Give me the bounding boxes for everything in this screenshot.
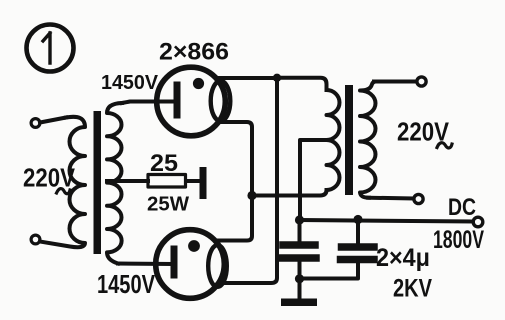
wire V1 filament top to junction A: [220, 76, 277, 80]
chassis bar bottom: [281, 299, 317, 307]
junction dot B: [247, 191, 256, 200]
T2 terminal top: [417, 77, 426, 86]
T2 primary winding (mains side): [360, 82, 376, 198]
V1 plate bar: [174, 85, 181, 115]
wire T2 top to terminal: [374, 80, 416, 84]
wire to chassis bottom: [298, 279, 302, 299]
svg-text:220V: 220V: [23, 163, 76, 193]
rectifier tube V1 (top 866): [157, 67, 231, 136]
chassis bar at resistor: [200, 167, 207, 199]
transformer T1 core: [94, 111, 102, 254]
svg-text:2×866: 2×866: [159, 39, 229, 66]
wire V1 filament bottom to vertical: [218, 122, 252, 241]
svg-text:2KV: 2KV: [393, 275, 432, 303]
V2 plate bar: [171, 249, 178, 275]
svg-text:1800V: 1800V: [433, 226, 484, 254]
T1 input terminal bottom: [31, 235, 40, 244]
wire secondary top to V1 plate: [122, 102, 175, 104]
wire terminal to primary top: [40, 118, 66, 123]
junction dot A: [273, 74, 281, 82]
V2 dot: [188, 240, 200, 252]
DC output terminal: [473, 217, 483, 227]
T2 secondary winding (tube side): [327, 90, 340, 190]
junction dot C: [295, 215, 304, 224]
wire secondary bottom to V2 plate: [118, 262, 172, 267]
label 220V~ left: [23, 163, 76, 193]
svg-text:1450V: 1450V: [97, 269, 156, 299]
svg-text:1450V: 1450V: [101, 72, 159, 94]
svg-text:2×4μ: 2×4μ: [376, 244, 430, 272]
capacitor C1: [282, 220, 316, 279]
wire center tap to resistor R1: [107, 179, 148, 183]
V1 dot: [193, 78, 204, 89]
rectifier tube V2 (bottom 866): [156, 230, 227, 299]
wire T2 center tap down to DC rail: [300, 140, 327, 219]
V2 filament arc: [208, 245, 227, 287]
junction dot D: [353, 215, 362, 224]
svg-text:25W: 25W: [147, 194, 189, 216]
T2 terminal bottom: [414, 194, 423, 203]
wire junction B to T2 winding bottom: [252, 190, 327, 196]
wire junction A to T2 winding top: [277, 78, 327, 90]
figure number circle 1: [27, 25, 74, 72]
transformer T2 core: [345, 85, 353, 195]
svg-text:DC: DC: [448, 194, 476, 221]
transformer T1 primary winding: [40, 117, 85, 247]
DC rail: [300, 220, 473, 222]
V1 filament arc: [211, 81, 231, 121]
wire T2 bottom to terminal: [368, 196, 413, 201]
svg-text:25: 25: [150, 150, 178, 177]
T1 secondary winding: [107, 103, 122, 264]
label 220V~ right: [397, 117, 450, 147]
capacitor C2: [303, 220, 374, 279]
resistor R1: [148, 175, 186, 188]
wire resistor to chassis bar: [186, 179, 200, 183]
junction dot E: [295, 274, 304, 283]
wire junction A down to V2 filament bottom: [222, 78, 277, 283]
T1 input terminal top: [31, 119, 40, 128]
